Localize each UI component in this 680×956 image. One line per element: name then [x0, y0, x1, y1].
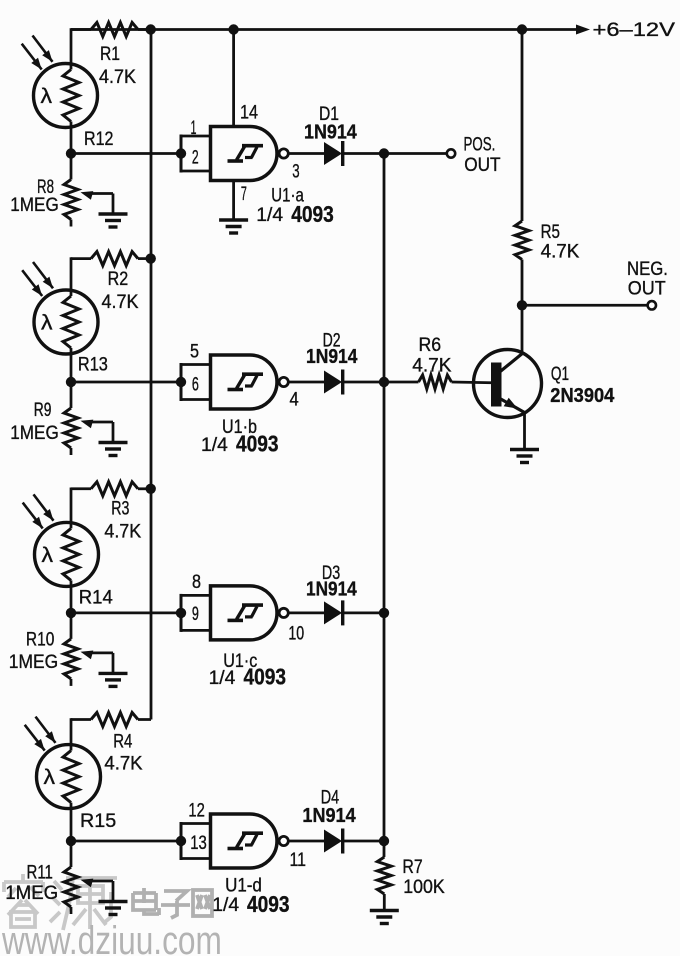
svg-text:R5: R5 [541, 220, 560, 242]
svg-text:R4: R4 [113, 731, 133, 752]
svg-text:+6–12V: +6–12V [593, 19, 676, 40]
svg-text:1/4: 1/4 [201, 435, 228, 456]
svg-text:λ: λ [41, 310, 53, 334]
svg-text:4093: 4093 [291, 201, 334, 227]
svg-text:9: 9 [192, 603, 199, 624]
svg-text:OUT: OUT [628, 277, 666, 299]
svg-text:1MEG: 1MEG [5, 882, 58, 903]
svg-text:3: 3 [292, 161, 299, 182]
svg-text:R10: R10 [26, 628, 54, 650]
svg-text:1N914: 1N914 [302, 805, 356, 827]
svg-text:R9: R9 [34, 399, 52, 421]
svg-text:4.7K: 4.7K [104, 753, 143, 774]
svg-text:1/4: 1/4 [212, 895, 239, 916]
svg-text:12: 12 [188, 800, 204, 821]
svg-text:R1: R1 [100, 43, 120, 65]
svg-text:100K: 100K [403, 875, 445, 897]
svg-text:1MEG: 1MEG [9, 650, 58, 672]
svg-text:R3: R3 [111, 498, 129, 520]
svg-text:4093: 4093 [236, 431, 279, 457]
svg-text:R6: R6 [419, 333, 442, 355]
svg-text:Q1: Q1 [551, 363, 569, 385]
svg-text:1N914: 1N914 [306, 577, 357, 599]
svg-text:λ: λ [41, 84, 53, 108]
svg-text:1N914: 1N914 [304, 122, 357, 144]
svg-text:4.7K: 4.7K [102, 291, 140, 313]
svg-text:8: 8 [192, 571, 201, 593]
svg-text:10: 10 [288, 623, 304, 645]
svg-text:4093: 4093 [244, 664, 287, 690]
svg-text:4093: 4093 [247, 891, 290, 917]
svg-text:R11: R11 [27, 862, 53, 883]
svg-text:R12: R12 [84, 128, 113, 150]
svg-text:14: 14 [240, 101, 258, 123]
svg-text:R13: R13 [78, 353, 108, 374]
svg-text:4.7K: 4.7K [104, 520, 141, 542]
svg-text:4.7K: 4.7K [412, 356, 451, 377]
svg-text:6: 6 [192, 374, 199, 395]
svg-text:R2: R2 [108, 268, 129, 290]
svg-text:1MEG: 1MEG [10, 194, 58, 215]
svg-text:1N914: 1N914 [306, 345, 358, 367]
svg-text:1MEG: 1MEG [10, 422, 58, 443]
svg-text:λ: λ [44, 765, 56, 789]
svg-text:R14: R14 [79, 586, 113, 607]
svg-text:1/4: 1/4 [209, 668, 236, 689]
svg-text:www.dziuu.com: www.dziuu.com [1, 917, 222, 956]
svg-text:2N3904: 2N3904 [550, 385, 614, 407]
svg-text:1: 1 [191, 118, 197, 139]
svg-text:13: 13 [190, 832, 207, 853]
svg-text:POS.: POS. [464, 134, 496, 155]
svg-text:4.7K: 4.7K [99, 66, 137, 88]
svg-text:λ: λ [42, 543, 54, 567]
svg-text:NEG.: NEG. [627, 258, 668, 279]
svg-text:4: 4 [290, 388, 299, 409]
svg-text:R15: R15 [80, 810, 116, 832]
svg-text:R7: R7 [402, 856, 422, 878]
svg-text:2: 2 [192, 148, 199, 168]
svg-text:5: 5 [190, 340, 199, 362]
svg-text:4.7K: 4.7K [541, 241, 580, 262]
svg-text:11: 11 [290, 849, 306, 871]
svg-text:1/4: 1/4 [256, 205, 283, 226]
svg-text:7: 7 [241, 184, 247, 205]
svg-text:OUT: OUT [464, 154, 500, 175]
